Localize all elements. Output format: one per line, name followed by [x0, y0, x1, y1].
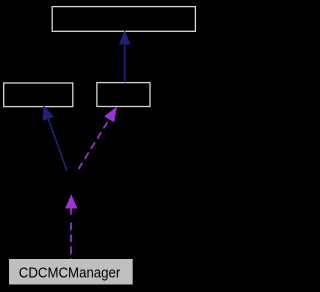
class box: base class (top, text invisible on black)	[52, 7, 195, 32]
class box: middle-left parent class	[4, 83, 73, 107]
arrowhead of inheritance arrow to middle-left box	[43, 105, 54, 121]
arrowhead of inheritance arrow to top box	[119, 30, 131, 45]
inheritance arrow (solid midnightblue): junction node to middle-left box, wire	[48, 119, 67, 171]
arrowhead of dashed usage arrow at junction node	[65, 194, 77, 208]
inheritance arrow (solid midnightblue): middle-right box to top box, wire	[124, 44, 126, 83]
usage arrow (dashed darkorchid): junction node to middle-right box, wire	[79, 119, 110, 169]
usage arrow dashed shaft from CDCMCManager	[70, 223, 72, 260]
usage arrow (dashed darkorchid): CDCMCManager to junction node, solid stub below arrowhead	[70, 208, 72, 215]
class box: CDCMCManager (current class, grey fill)	[9, 259, 133, 285]
arrowhead of dashed usage arrow to middle-right box	[104, 107, 117, 123]
class box: middle-right parent class	[97, 83, 150, 107]
svg-text:CDCMCManager: CDCMCManager	[19, 266, 121, 282]
